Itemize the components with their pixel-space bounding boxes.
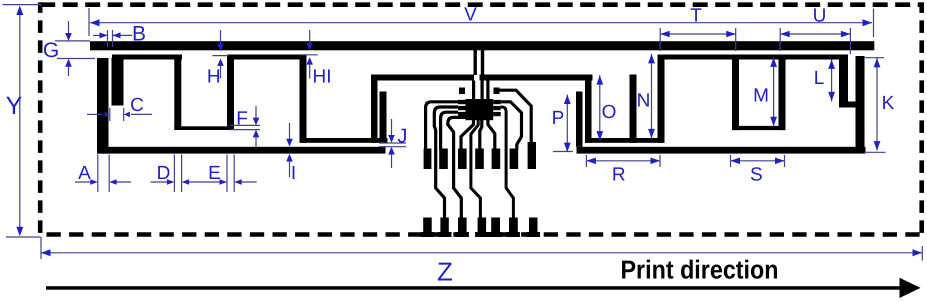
dim F lines — [231, 124, 261, 126]
dim V line — [90, 22, 872, 24]
fan trace C — [441, 112, 458, 149]
right stub foot — [839, 102, 858, 108]
chip side pad left 1 — [458, 100, 466, 104]
left bracket bar — [459, 88, 465, 95]
dim O line — [599, 75, 601, 140]
chip bottom stub 3 — [480, 120, 482, 149]
fan trace D (pass-through to bottom pad3) — [448, 117, 466, 219]
stub1 (C stub) — [112, 58, 124, 106]
B arrows — [100, 32, 108, 38]
print direction arrow — [46, 286, 902, 290]
dim I lines — [289, 123, 291, 141]
right arm bottom bar — [577, 147, 866, 154]
dim R lines — [586, 160, 660, 162]
K arrows — [874, 58, 881, 67]
vertical v5 — [658, 58, 665, 143]
dim K lines — [876, 58, 878, 151]
svg-text:K: K — [882, 93, 895, 114]
D arrows — [167, 179, 175, 185]
dim D lines — [151, 181, 170, 183]
chip body — [466, 99, 494, 120]
dim J lines — [379, 142, 406, 144]
svg-text:N: N — [637, 91, 651, 112]
vertical v4 (tall dead-end) — [630, 75, 637, 143]
dim E lines — [204, 181, 222, 183]
upper pad row — [424, 142, 536, 169]
G arrows — [65, 33, 72, 41]
svg-text:O: O — [602, 102, 617, 123]
chip stub centre — [481, 81, 484, 100]
S arrows — [731, 158, 741, 165]
chip stub left — [472, 81, 475, 100]
svg-text:C: C — [130, 95, 144, 116]
top bar (long conductor line) — [90, 41, 874, 50]
J arrows — [388, 135, 395, 143]
chip bottom stub 4 — [488, 120, 495, 149]
A arrows — [90, 179, 98, 185]
svg-text:HI: HI — [313, 67, 332, 88]
bottom pad row with feet — [421, 218, 540, 238]
chip bottom stub 1 — [461, 120, 474, 149]
svg-text:R: R — [612, 165, 626, 186]
vertical v1 — [174, 58, 181, 130]
chip stub right — [486, 81, 489, 100]
feed elbow left (line2 down-leg) — [371, 78, 378, 143]
mid run m1 — [174, 126, 234, 130]
dim G lines — [55, 40, 90, 42]
M arrows — [770, 58, 777, 67]
H arrows — [217, 44, 224, 51]
R arrows — [586, 158, 596, 165]
svg-text:G: G — [43, 39, 59, 62]
right fan trace R2 (to pad6) — [501, 102, 522, 150]
dim B lines — [93, 34, 108, 36]
dim H lines — [220, 30, 222, 45]
E arrows — [220, 179, 228, 185]
svg-text:T: T — [690, 6, 702, 27]
dim L line — [831, 60, 833, 102]
feed line2 left segment — [371, 75, 474, 81]
right cell wall — [658, 55, 849, 60]
svg-text:Print direction: Print direction — [621, 255, 779, 285]
right fan trace R1 (outer, to pad7) — [494, 90, 531, 145]
chip side pad right 2 — [493, 106, 501, 110]
cell2 top wall — [227, 55, 307, 60]
svg-text:V: V — [464, 5, 477, 26]
svg-text:P: P — [552, 108, 565, 129]
cell1 top wall — [112, 55, 182, 60]
V arrows — [90, 19, 100, 26]
HI arrows — [306, 43, 313, 50]
right outer vertical bar — [856, 56, 865, 154]
C arrows — [105, 112, 110, 118]
svg-text:E: E — [208, 163, 221, 184]
dim M line — [773, 58, 775, 127]
mid run m2 — [300, 138, 388, 143]
dim N line — [651, 54, 653, 138]
chip bottom stub 2 (pass-through to bottom pad4) — [471, 120, 481, 219]
mid run m5 — [732, 126, 786, 130]
L arrows — [828, 60, 835, 69]
chip side pad left 3 — [458, 112, 466, 116]
mid run m3 — [585, 138, 665, 143]
fan trace A — [426, 102, 458, 149]
dim U line — [780, 33, 850, 35]
right matching stub (P) — [576, 92, 583, 147]
svg-text:U: U — [813, 6, 827, 27]
vertical v2 — [227, 58, 234, 130]
svg-text:H: H — [207, 67, 221, 88]
dim Y line — [19, 9, 21, 233]
Z arrows — [41, 249, 51, 256]
chip side pad left 2 — [458, 106, 466, 110]
vertical v3 — [300, 58, 307, 143]
left arm outer vertical bar — [97, 58, 109, 154]
top bar to line2 stub left — [474, 50, 477, 75]
T arrows — [660, 31, 670, 38]
svg-text:A: A — [78, 163, 91, 184]
N arrows — [648, 54, 655, 63]
chip side pad right 1 — [493, 100, 501, 104]
dim A lines — [75, 181, 93, 183]
dim P line — [566, 95, 568, 152]
right bracket bar — [494, 88, 500, 95]
fan trace B (pass-through to bottom pad2) — [434, 107, 458, 219]
I arrows — [286, 139, 293, 147]
F arrows — [253, 118, 260, 126]
svg-text:B: B — [132, 23, 146, 46]
P arrows — [564, 95, 571, 104]
chip side pad right 3 — [493, 112, 501, 116]
svg-text:M: M — [753, 86, 769, 107]
bar A — [732, 58, 739, 130]
svg-text:Z: Z — [437, 257, 453, 287]
left arm bottom bar — [97, 147, 386, 154]
svg-text:I: I — [291, 163, 296, 184]
bar B — [779, 58, 786, 130]
dim T line — [660, 33, 736, 35]
U arrows — [780, 31, 790, 38]
feed elbow right — [585, 78, 592, 143]
dim S lines — [731, 160, 785, 162]
right stub2 — [839, 58, 848, 102]
svg-text:Y: Y — [6, 92, 23, 120]
dashed label outline border — [40, 2, 922, 234]
svg-text:J: J — [397, 126, 407, 148]
top bar to line2 stub right — [481, 50, 484, 75]
left matching stub (mirror P) — [380, 92, 387, 143]
dim HI lines — [309, 30, 311, 45]
svg-text:F: F — [236, 109, 248, 130]
dim Z line — [41, 252, 922, 254]
right fan trace R3 (pass-through to bottom pad6) — [501, 107, 514, 219]
feed line2 right segment — [480, 75, 593, 81]
Y arrows — [16, 6, 23, 16]
svg-text:L: L — [814, 68, 825, 89]
dim C lines — [87, 113, 102, 115]
svg-text:S: S — [750, 165, 763, 186]
O arrows — [596, 75, 603, 84]
svg-text:D: D — [157, 163, 171, 184]
